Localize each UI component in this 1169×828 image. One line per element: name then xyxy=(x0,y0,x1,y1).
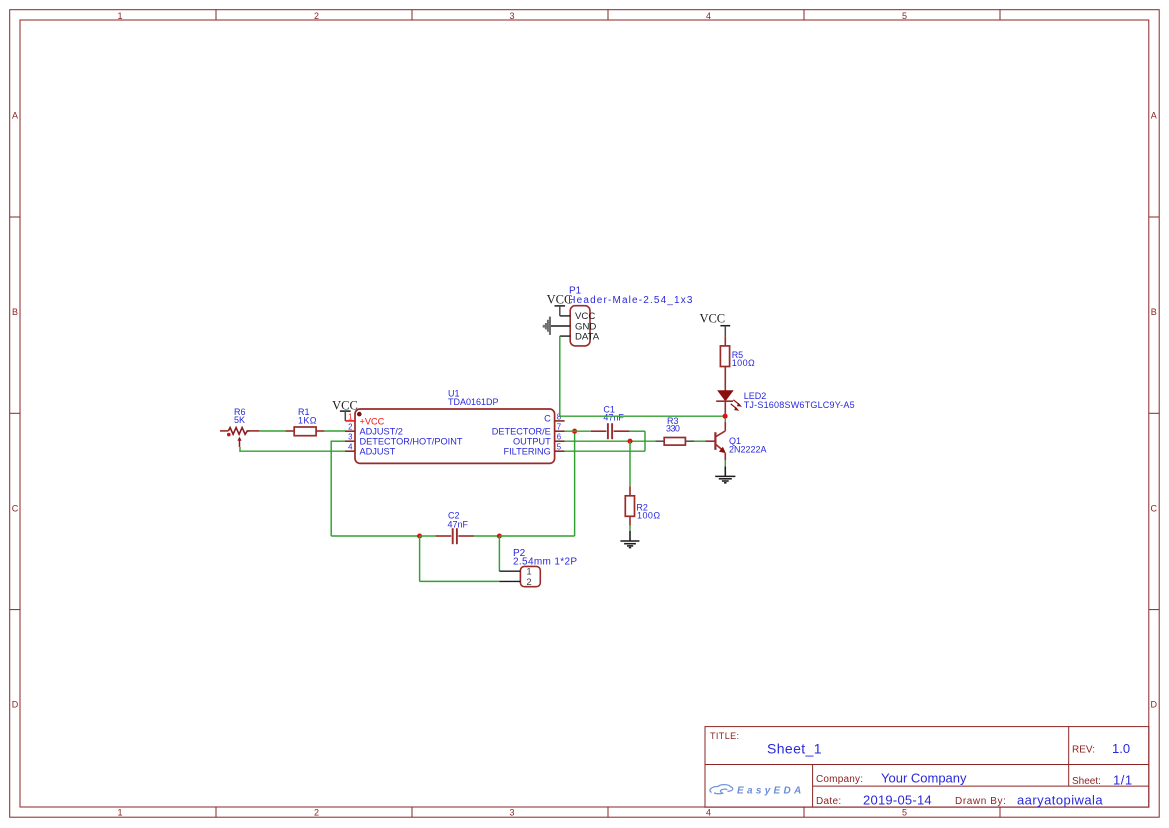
wire R6-R1 xyxy=(250,430,260,432)
wire R1 - U1 pin2 xyxy=(324,430,345,432)
svg-text:Your Company: Your Company xyxy=(881,770,967,785)
resistor R3 330 xyxy=(655,416,694,445)
node U1 pin7 junction xyxy=(572,429,577,434)
svg-text:2.54mm 1*2P: 2.54mm 1*2P xyxy=(513,557,577,568)
resistor R2 100Ω xyxy=(625,486,660,526)
svg-text:C: C xyxy=(544,414,551,424)
svg-text:2N2222A: 2N2222A xyxy=(729,445,767,455)
resistor R5 100Ω xyxy=(720,336,755,391)
svg-text:DETECTOR/HOT/POINT: DETECTOR/HOT/POINT xyxy=(360,437,463,447)
svg-text:D: D xyxy=(1151,700,1158,710)
wire Q1 emitter to ground xyxy=(724,460,726,466)
svg-text:Date:: Date: xyxy=(816,796,841,807)
LED2 TJ-S1608SW6TGLC9Y-A5 xyxy=(716,391,855,414)
wire U1 pin3 to C2 left xyxy=(331,441,419,537)
svg-text:4: 4 xyxy=(706,807,711,817)
svg-text:TDA0161DP: TDA0161DP xyxy=(448,397,499,407)
svg-text:7: 7 xyxy=(557,423,561,432)
U1 pin 4 xyxy=(345,443,396,457)
U1 pin 2 xyxy=(345,423,403,437)
svg-text:ADJUST/2: ADJUST/2 xyxy=(360,427,403,437)
U1 pin 6 xyxy=(513,433,565,447)
svg-text:C: C xyxy=(12,503,19,513)
svg-text:1: 1 xyxy=(117,11,122,21)
svg-text:2: 2 xyxy=(348,423,352,432)
svg-text:330: 330 xyxy=(666,424,680,434)
resistor R6 (trimmer 5K) xyxy=(220,407,250,447)
connector P2 2.54mm 1*2P xyxy=(499,548,577,588)
power flag VCC (P1) xyxy=(547,293,573,316)
U1 pin 1 xyxy=(345,412,384,426)
svg-text:5K: 5K xyxy=(234,415,245,425)
svg-text:Company:: Company: xyxy=(816,774,863,785)
svg-text:DETECTOR/E: DETECTOR/E xyxy=(492,427,551,437)
U1 pin 3 xyxy=(345,433,463,447)
U1 pin 7 xyxy=(492,423,565,437)
svg-text:FILTERING: FILTERING xyxy=(503,447,550,457)
svg-text:D: D xyxy=(12,700,19,710)
wire C1 right to U1 pin5 loop xyxy=(565,431,645,451)
node LED/Q1 collector junction xyxy=(723,414,728,419)
svg-text:100Ω: 100Ω xyxy=(637,511,661,521)
wire C2 right junction to U1 pin7 net xyxy=(499,431,574,536)
svg-text:OUTPUT: OUTPUT xyxy=(513,437,551,447)
svg-text:VCC: VCC xyxy=(332,398,358,412)
svg-text:3: 3 xyxy=(509,807,514,817)
U1 pin 5 xyxy=(503,443,564,457)
power flag VCC (R5 top) xyxy=(699,311,730,336)
svg-text:5: 5 xyxy=(902,807,907,817)
svg-text:A: A xyxy=(1151,111,1157,121)
svg-text:VCC: VCC xyxy=(547,293,573,307)
svg-text:REV:: REV: xyxy=(1072,745,1095,756)
wire C2 right junction down to P2 pin1 xyxy=(498,536,500,571)
power flag VCC (U1 pin1) xyxy=(332,398,358,421)
svg-text:+VCC: +VCC xyxy=(360,416,385,426)
EasyEDA logo xyxy=(710,785,805,797)
svg-text:A: A xyxy=(12,111,18,121)
svg-text:Sheet:: Sheet: xyxy=(1072,776,1101,787)
svg-text:1KΩ: 1KΩ xyxy=(298,415,317,425)
node C2 right junction xyxy=(497,533,502,538)
node C2 left junction xyxy=(417,533,422,538)
U1 pin 8 xyxy=(544,412,564,423)
svg-text:1: 1 xyxy=(117,807,122,817)
svg-text:100Ω: 100Ω xyxy=(732,358,756,368)
node R2 junction xyxy=(627,439,632,444)
wire U1 pin6 row xyxy=(565,440,656,442)
capacitor C1 47nF xyxy=(591,404,630,439)
ground (below Q1) xyxy=(715,467,735,483)
svg-text:VCC: VCC xyxy=(699,311,725,325)
svg-text:5: 5 xyxy=(902,11,907,21)
connector P1 Header-Male-2.54_1x3 xyxy=(551,286,694,346)
wire C2 left junction down to P2 pin2 xyxy=(420,536,500,581)
svg-text:2: 2 xyxy=(526,577,531,588)
svg-text:B: B xyxy=(12,307,18,317)
svg-text:1.0: 1.0 xyxy=(1112,741,1130,756)
resistor R1 1KΩ xyxy=(285,407,324,436)
svg-text:47nF: 47nF xyxy=(603,412,624,422)
svg-text:1: 1 xyxy=(348,412,352,421)
svg-text:aaryatopiwala: aaryatopiwala xyxy=(1017,792,1103,807)
wire U1 pin4 row to R6 wiper xyxy=(239,447,345,451)
svg-text:5: 5 xyxy=(557,443,562,452)
svg-text:EasyEDA: EasyEDA xyxy=(737,785,805,796)
svg-text:TITLE:: TITLE: xyxy=(710,731,739,741)
svg-text:Header-Male-2.54_1x3: Header-Male-2.54_1x3 xyxy=(568,295,693,306)
wire R3 to Q1 base xyxy=(694,440,705,442)
svg-text:ADJUST: ADJUST xyxy=(360,447,396,457)
op-amp U1 TDA0161DP body xyxy=(355,389,555,464)
svg-text:2: 2 xyxy=(314,11,319,21)
svg-text:TJ-S1608SW6TGLC9Y-A5: TJ-S1608SW6TGLC9Y-A5 xyxy=(744,400,855,410)
svg-text:B: B xyxy=(1151,307,1157,317)
svg-text:6: 6 xyxy=(557,433,561,442)
svg-text:Sheet_1: Sheet_1 xyxy=(767,741,822,757)
svg-text:Drawn By:: Drawn By: xyxy=(955,796,1007,807)
svg-text:2: 2 xyxy=(314,807,319,817)
capacitor C2 47nF xyxy=(420,510,500,544)
transistor Q1 2N2222A xyxy=(705,419,766,461)
svg-text:47nF: 47nF xyxy=(448,520,469,530)
svg-text:1/1: 1/1 xyxy=(1113,772,1133,787)
svg-text:2019-05-14: 2019-05-14 xyxy=(863,792,932,807)
wire P1 DATA to LED/Q1 node xyxy=(560,336,725,416)
svg-text:C: C xyxy=(1151,503,1158,513)
title block xyxy=(705,727,1149,808)
wire R2 to ground xyxy=(629,526,631,531)
svg-text:DATA: DATA xyxy=(575,332,600,343)
ground (below R2) xyxy=(620,531,639,548)
wire U1 pin7 to C1 xyxy=(565,430,591,432)
wire junction down to R2 xyxy=(629,441,631,486)
ground GND (P1, pointing left) xyxy=(543,317,551,335)
svg-text:3: 3 xyxy=(348,433,352,442)
svg-text:4: 4 xyxy=(706,11,711,21)
svg-text:4: 4 xyxy=(348,443,353,452)
svg-text:3: 3 xyxy=(509,11,514,21)
